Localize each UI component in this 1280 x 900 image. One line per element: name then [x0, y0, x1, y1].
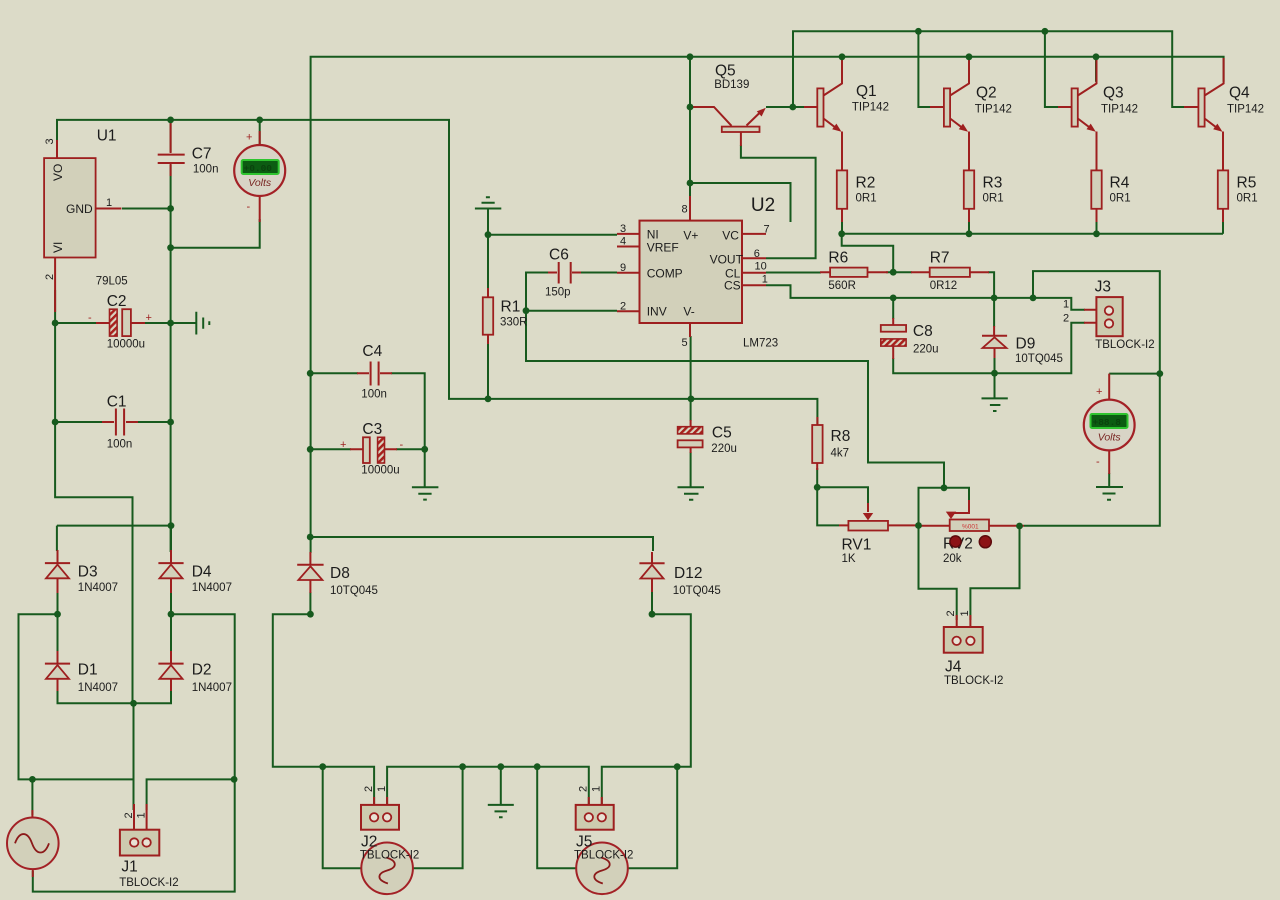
- svg-text:2: 2: [363, 786, 375, 792]
- svg-text:R6: R6: [828, 250, 848, 267]
- svg-text:C7: C7: [192, 146, 212, 163]
- wire Q3 base drop: [1045, 31, 1059, 107]
- wire C2 row right: [143, 322, 171, 324]
- wire C1 row left: [55, 421, 103, 423]
- svg-text:10000u: 10000u: [361, 465, 399, 477]
- wire V3 left branch: [537, 767, 576, 869]
- svg-text:100n: 100n: [193, 164, 219, 176]
- wire base rail top (Q1-Q4 bases): [793, 31, 1186, 107]
- svg-text:D9: D9: [1016, 336, 1036, 353]
- wire U1 GND pin1 to column: [122, 208, 171, 210]
- transistor Q5 BD139: [691, 107, 766, 146]
- label D2: [192, 662, 232, 695]
- svg-text:U1: U1: [97, 128, 117, 145]
- svg-text:-: -: [400, 439, 404, 451]
- svg-text:0R1: 0R1: [983, 193, 1004, 205]
- resistor R1 330R: [483, 288, 493, 344]
- wire left ground bus (U1 pin3 C7 VM1 to R8 top): [57, 120, 817, 424]
- svg-text:Q5: Q5: [715, 63, 736, 80]
- label C6: [545, 247, 571, 299]
- terminal block J4 TBLOCK-I2: [944, 610, 983, 652]
- svg-text:1N4007: 1N4007: [78, 682, 118, 694]
- resistor R3 0R1: [964, 150, 974, 222]
- svg-text:C3: C3: [362, 421, 382, 438]
- svg-text:330R: 330R: [500, 317, 528, 329]
- wire R2 bottom: [841, 209, 843, 234]
- wire V2 right branch: [413, 767, 463, 869]
- wire R8 bottom node: [816, 468, 818, 487]
- svg-text:C4: C4: [362, 343, 382, 360]
- wire C2 ground stub: [171, 322, 197, 324]
- wire center ground stub: [500, 767, 502, 804]
- resistor R8 4k7: [812, 417, 822, 470]
- svg-text:RV1: RV1: [842, 537, 872, 554]
- capacitor C8 220u: [881, 318, 906, 359]
- svg-text:D3: D3: [78, 564, 98, 581]
- label D8: [330, 565, 378, 597]
- svg-text:4k7: 4k7: [831, 448, 850, 460]
- wire INV pin2: [526, 310, 617, 312]
- label J2: [360, 834, 419, 862]
- resistor R7 0R12: [911, 268, 989, 277]
- label RV1: [842, 537, 872, 566]
- svg-text:TIP142: TIP142: [1101, 104, 1138, 116]
- label C5: [711, 425, 737, 456]
- wire Q2 base drop: [918, 31, 931, 107]
- svg-text:7: 7: [764, 224, 770, 236]
- pot RV2 buttons: [950, 536, 991, 548]
- resistor R2 0R1: [837, 150, 847, 222]
- svg-text:LM723: LM723: [743, 338, 778, 350]
- wire V2 left branch: [323, 767, 362, 869]
- label C3: [361, 421, 399, 477]
- label J3: [1095, 279, 1155, 352]
- svg-text:100n: 100n: [107, 439, 133, 451]
- label C8: [913, 323, 939, 356]
- wire right rail J5 pin1 to D12 anode: [602, 614, 691, 808]
- label R6: [828, 250, 856, 293]
- svg-text:1N4007: 1N4007: [192, 682, 232, 694]
- wire Q5 collector junction to U2 V+: [689, 57, 691, 196]
- wire J1 pin1 to V1 return: [147, 779, 235, 810]
- svg-text:TBLOCK-I2: TBLOCK-I2: [119, 877, 178, 889]
- svg-text:-: -: [247, 201, 251, 213]
- svg-text:10TQ045: 10TQ045: [673, 585, 721, 597]
- regulator U1 79L05: [44, 138, 121, 312]
- svg-text:220u: 220u: [711, 443, 737, 455]
- diode D2 1N4007: [158, 651, 183, 691]
- capacitor C5 220u: [678, 420, 703, 453]
- wire C7 bottom column to D4: [170, 165, 172, 552]
- diode D9 10TQ045: [982, 326, 1007, 358]
- svg-text:R4: R4: [1110, 175, 1130, 192]
- wire CS pin1 output line: [766, 285, 1085, 309]
- wire Q3 collector drop: [1095, 57, 1097, 82]
- capacitor C3 10000u: [340, 437, 404, 463]
- svg-text:0R1: 0R1: [856, 193, 877, 205]
- svg-text:D12: D12: [674, 565, 702, 582]
- diode D12 10TQ045: [639, 552, 664, 592]
- svg-text:20k: 20k: [943, 553, 962, 565]
- wire voltmeter1 minus: [171, 219, 260, 248]
- svg-text:TBLOCK-I2: TBLOCK-I2: [944, 675, 1003, 687]
- svg-text:1: 1: [136, 812, 148, 818]
- svg-text:Q1: Q1: [856, 83, 877, 100]
- wire C1 row right: [137, 421, 171, 423]
- svg-text:COMP: COMP: [647, 267, 683, 281]
- svg-text:TIP142: TIP142: [975, 104, 1012, 116]
- label C4: [361, 343, 387, 401]
- terminal block J5 TBLOCK-I2: [576, 786, 614, 830]
- wire Q1 collector drop: [841, 57, 843, 82]
- svg-text:560R: 560R: [828, 280, 856, 292]
- svg-text:C1: C1: [107, 394, 127, 411]
- wire C7 top branch: [170, 120, 172, 152]
- wire R4 bottom: [1096, 209, 1098, 234]
- svg-text:1N4007: 1N4007: [192, 582, 232, 594]
- transistor Q3 TIP142: [1058, 58, 1097, 152]
- wire D9 anode to ground: [994, 357, 996, 398]
- wire C6 right to COMP pin9: [580, 272, 617, 274]
- svg-text:TBLOCK-I2: TBLOCK-I2: [1095, 339, 1154, 351]
- label R4: [1110, 175, 1131, 205]
- ground (inverted) above R1: [475, 197, 501, 208]
- wire D4 anode to V1 return: [33, 614, 235, 891]
- label D4: [192, 564, 232, 595]
- wire RV1 right node down to J4 pin2: [919, 526, 957, 621]
- svg-text:0R1: 0R1: [1110, 193, 1131, 205]
- label J5: [574, 834, 633, 862]
- label R5: [1237, 175, 1258, 205]
- voltmeter VM2: [1084, 374, 1135, 474]
- wire D12 anode stub: [651, 592, 653, 614]
- wire voltmeter2 minus to ground: [1108, 473, 1110, 487]
- svg-text:0R12: 0R12: [930, 280, 958, 292]
- svg-text:2: 2: [945, 610, 957, 616]
- wire V- pin5 to C5: [690, 336, 692, 421]
- svg-text:TBLOCK-I2: TBLOCK-I2: [360, 850, 419, 862]
- wire R7 to CS node: [988, 272, 994, 298]
- wire Q3 emitter to R4: [1096, 133, 1098, 170]
- wire R8 node to RV1 wiper: [817, 487, 868, 504]
- svg-text:10TQ045: 10TQ045: [330, 585, 378, 597]
- ground below C3: [412, 487, 439, 499]
- svg-text:C6: C6: [549, 247, 569, 264]
- diode D3 1N4007: [45, 550, 70, 593]
- svg-text:Q3: Q3: [1103, 85, 1124, 102]
- wire D12 cathode to D8 column: [310, 537, 653, 551]
- svg-text:2: 2: [123, 812, 135, 818]
- sine source V1: [7, 810, 59, 877]
- svg-text:1: 1: [106, 197, 112, 209]
- terminal block J2 TBLOCK-I2: [361, 786, 399, 830]
- wire V1 top to J1 rail: [31, 779, 33, 815]
- svg-text:Volts: Volts: [248, 177, 272, 189]
- label D3: [78, 564, 118, 595]
- wire INV feedback long path to RV nodes: [526, 311, 944, 488]
- svg-text:R3: R3: [983, 175, 1003, 192]
- svg-text:3: 3: [44, 138, 56, 144]
- label Q2: [975, 85, 1012, 116]
- svg-text:R1: R1: [501, 299, 521, 316]
- resistor R5 0R1: [1218, 150, 1228, 222]
- svg-text:1: 1: [762, 274, 768, 286]
- label R1: [500, 299, 528, 329]
- wire output loop to RV2 right: [1024, 271, 1160, 526]
- svg-text:3: 3: [620, 223, 626, 235]
- svg-text:VI: VI: [51, 242, 65, 253]
- svg-text:6: 6: [754, 248, 760, 260]
- resistor R6 560R: [820, 268, 888, 277]
- wire COMP via C6: [526, 273, 549, 311]
- wire emitter rail: [842, 233, 1223, 235]
- diode D8 10TQ045: [297, 552, 323, 593]
- svg-text:R7: R7: [930, 250, 950, 267]
- capacitor C7 100n: [158, 120, 185, 176]
- capacitor C6 150p: [548, 262, 581, 284]
- ground below VM2: [1096, 487, 1123, 500]
- svg-text:VC: VC: [722, 229, 739, 243]
- wire C4 row right: [391, 373, 425, 449]
- svg-text:220u: 220u: [913, 344, 939, 356]
- label U2: [743, 195, 778, 350]
- svg-text:79L05: 79L05: [96, 276, 128, 288]
- svg-text:+: +: [1096, 386, 1102, 398]
- label Q4: [1227, 85, 1264, 116]
- svg-text:+: +: [146, 312, 152, 324]
- svg-text:Volts: Volts: [1098, 432, 1122, 444]
- svg-text:2: 2: [1063, 313, 1069, 325]
- svg-text:+: +: [340, 439, 346, 451]
- svg-text:J1: J1: [121, 859, 137, 876]
- label Q5: [714, 63, 749, 92]
- label C2: [107, 293, 145, 351]
- svg-text:GND: GND: [66, 202, 93, 216]
- wire R1 top: [487, 235, 489, 296]
- wire R6 to R7: [886, 271, 912, 273]
- svg-text:-: -: [1096, 456, 1100, 468]
- transistor Q1 TIP142: [804, 57, 842, 152]
- wire node to RV2 wiper: [944, 488, 969, 501]
- resistor R4 0R1: [1091, 150, 1101, 222]
- svg-text:CS: CS: [724, 279, 741, 293]
- wire Q1 base: [766, 106, 805, 108]
- ground (earth) right of C2: [196, 312, 209, 335]
- wire R8 node to RV1 left: [817, 487, 839, 525]
- diode D1 1N4007: [45, 651, 70, 691]
- wire Q4 emitter to R5: [1222, 133, 1224, 170]
- label J4: [944, 659, 1003, 688]
- transistor Q4 TIP142: [1184, 58, 1224, 152]
- svg-text:J3: J3: [1095, 279, 1111, 296]
- label R3: [983, 175, 1004, 205]
- svg-text:4: 4: [620, 236, 626, 248]
- wire C8 bottom to J3 pin2: [893, 323, 1085, 373]
- wire Q2 emitter to R3: [968, 133, 970, 170]
- svg-text:R2: R2: [856, 175, 876, 192]
- svg-text:C5: C5: [712, 425, 732, 442]
- voltmeter VM1: [234, 131, 285, 222]
- capacitor C2 10000u: [88, 309, 152, 336]
- svg-text:8: 8: [682, 204, 688, 216]
- svg-text:NI: NI: [647, 228, 659, 242]
- wire C5 bottom to ground: [690, 452, 692, 487]
- label D9: [1015, 336, 1063, 366]
- svg-text:D2: D2: [192, 662, 212, 679]
- wire bridge mid rail: [19, 592, 135, 779]
- svg-text:2: 2: [620, 301, 626, 313]
- svg-text:D8: D8: [330, 565, 350, 582]
- svg-text:C8: C8: [913, 323, 933, 340]
- svg-text:100n: 100n: [361, 389, 387, 401]
- svg-text:U2: U2: [751, 195, 775, 216]
- svg-text:R8: R8: [831, 428, 851, 445]
- wire R3 bottom: [968, 209, 970, 234]
- label Q3: [1101, 85, 1138, 116]
- svg-text:VOUT: VOUT: [710, 253, 744, 267]
- wire Q5 base to VOUT pin6: [741, 145, 816, 258]
- wire C3 row right: [396, 448, 425, 450]
- ground below C5: [678, 487, 705, 500]
- svg-text:+88.8: +88.8: [1093, 417, 1122, 428]
- wire Q1 emitter to R2: [841, 133, 843, 170]
- label C1: [107, 394, 133, 451]
- svg-text:+0.00: +0.00: [244, 163, 273, 174]
- wire D1 anode to bottom rail: [58, 690, 172, 703]
- terminal block J1 TBLOCK-I2: [120, 804, 159, 856]
- wire C2 row left: [55, 322, 97, 324]
- diode D4 1N4007: [158, 550, 183, 593]
- svg-text:1: 1: [376, 786, 388, 792]
- svg-text:2: 2: [44, 274, 56, 280]
- svg-text:J4: J4: [945, 659, 962, 676]
- svg-text:1: 1: [591, 786, 603, 792]
- wire voltmeter2 plus branch: [1109, 373, 1160, 375]
- svg-text:10000u: 10000u: [107, 339, 145, 351]
- wire C4 row left: [310, 372, 358, 374]
- svg-text:R5: R5: [1237, 175, 1257, 192]
- potentiometer RV1 1K: [839, 503, 919, 531]
- svg-text:150p: 150p: [545, 287, 571, 299]
- capacitor C1 100n: [102, 409, 138, 436]
- sine source V3: [576, 843, 628, 895]
- svg-text:VREF: VREF: [647, 241, 679, 255]
- wire voltmeter1 plus: [259, 120, 261, 144]
- wire D9 cathode branch: [993, 298, 995, 327]
- label RV2: [943, 536, 973, 566]
- label R8: [831, 428, 851, 460]
- capacitor C4 100n: [357, 362, 392, 386]
- svg-text:2: 2: [578, 786, 590, 792]
- wire Q2 collector drop: [968, 57, 970, 82]
- op-amp regulator U2 LM723: [617, 196, 770, 349]
- label D12: [673, 565, 721, 597]
- terminal block J3 TBLOCK-I2: [1063, 297, 1123, 336]
- label Q1: [852, 83, 889, 114]
- svg-text:-: -: [88, 312, 92, 324]
- wire emitter rail to R6-R7 node: [842, 234, 894, 272]
- svg-text:10TQ045: 10TQ045: [1015, 353, 1063, 365]
- svg-text:0R1: 0R1: [1237, 193, 1258, 205]
- svg-text:J5: J5: [576, 834, 592, 851]
- wire CL pin10 to R6: [766, 272, 821, 274]
- wire D8 anode loop to J2 pin2 rail: [273, 592, 374, 808]
- label R7: [930, 250, 958, 293]
- wire D4-D2 column: [170, 526, 172, 652]
- svg-text:9: 9: [620, 262, 626, 274]
- sine source V2: [361, 843, 413, 895]
- wire U1 pin2 column down left side: [55, 290, 132, 703]
- wire J1 pin2 drop: [133, 703, 135, 810]
- svg-text:10: 10: [755, 261, 767, 273]
- wire V3 right branch: [628, 767, 678, 869]
- svg-text:TIP142: TIP142: [1227, 104, 1264, 116]
- transistor Q2 TIP142: [930, 58, 969, 152]
- label R2: [856, 175, 877, 205]
- svg-text:TBLOCK-I2: TBLOCK-I2: [574, 850, 633, 862]
- ground below D9: [982, 398, 1008, 411]
- wire node to RV1 right: [919, 488, 945, 526]
- svg-text:V-: V-: [683, 305, 694, 319]
- wire collector rail (wire B) with D8 column: [311, 57, 1224, 553]
- svg-text:C2: C2: [107, 293, 127, 310]
- wire D3 top from left column: [57, 526, 171, 551]
- wire C3 row left: [310, 448, 351, 450]
- label D1: [78, 662, 118, 695]
- svg-text:1N4007: 1N4007: [78, 582, 118, 594]
- svg-text:BD139: BD139: [714, 79, 749, 91]
- label U1: [96, 128, 128, 288]
- wire RV2 right node down to J4 pin1: [970, 526, 1019, 620]
- svg-text:VO: VO: [51, 164, 65, 181]
- svg-text:Q2: Q2: [976, 85, 997, 102]
- svg-text:1: 1: [1063, 299, 1069, 311]
- wire C3 node to ground: [424, 449, 426, 487]
- svg-text:J2: J2: [361, 834, 377, 851]
- svg-text:1: 1: [959, 610, 971, 616]
- svg-text:%001: %001: [962, 524, 979, 531]
- label C7: [192, 146, 219, 176]
- wire NI line (pin3 to R1 top node): [488, 209, 617, 235]
- wire V+ pin8 to VC pin7: [690, 183, 791, 222]
- wire C8 top branch: [892, 298, 894, 319]
- svg-text:INV: INV: [647, 305, 667, 319]
- svg-text:1K: 1K: [842, 553, 856, 565]
- svg-text:D1: D1: [78, 662, 98, 679]
- wire R5 bottom: [1222, 209, 1224, 234]
- svg-text:TIP142: TIP142: [852, 102, 889, 114]
- label J1: [119, 859, 178, 890]
- potentiometer RV2 20k: [919, 500, 1025, 531]
- svg-text:Q4: Q4: [1229, 85, 1250, 102]
- wire center rail J2 pin1 to J5 pin2: [387, 767, 589, 808]
- ground center tap: [488, 805, 514, 817]
- wire R1 bottom: [487, 336, 489, 399]
- svg-text:D4: D4: [192, 564, 212, 581]
- svg-text:+: +: [246, 132, 252, 144]
- svg-text:5: 5: [682, 337, 688, 349]
- svg-text:V+: V+: [683, 229, 698, 243]
